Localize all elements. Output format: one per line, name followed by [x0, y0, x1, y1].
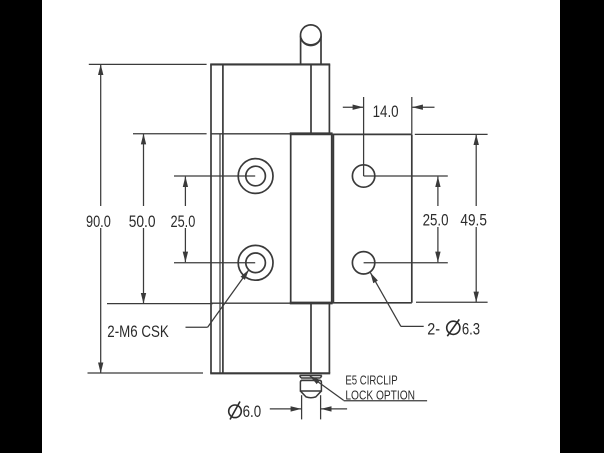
- dim line 49.5 upper segment: [475, 134, 477, 206]
- leader 2-M6 CSK horizontal: [186, 326, 208, 328]
- top knuckle outer edge: [328, 64, 330, 133]
- left pillarbox: [0, 0, 42, 453]
- extension line upper-right hole centerline: [364, 175, 448, 177]
- top pin ball: [301, 25, 322, 46]
- right leaf right edge: [411, 134, 413, 302]
- pin head body: [300, 380, 321, 391]
- top pin tube left side: [300, 36, 302, 64]
- horizontal edge across at barrel bottom: [211, 302, 332, 304]
- lower right hole: [352, 252, 374, 274]
- svg-text:6.0: 6.0: [243, 402, 262, 421]
- dim line 25.0 right lower segment: [437, 227, 439, 262]
- upper left hole inner: [246, 166, 266, 186]
- leader dia 6.3 diagonal: [370, 273, 401, 327]
- svg-text:E5 CIRCLIP: E5 CIRCLIP: [345, 374, 397, 388]
- dia 6.0 right arrow: [321, 408, 347, 410]
- left leaf fold line (middle): [219, 134, 221, 373]
- pin head dome: [301, 391, 322, 398]
- left leaf outer left edge: [210, 64, 212, 373]
- bottom knuckle outer edge: [328, 303, 330, 373]
- dia 6.0 extension right: [320, 395, 322, 419]
- extension line 50.0 bottom: [107, 303, 213, 305]
- top pin inner arc: [301, 38, 320, 45]
- dim line 25.0 left lower segment: [184, 228, 186, 262]
- extension line bottom left (90.0): [88, 372, 204, 374]
- svg-text:LOCK OPTION: LOCK OPTION: [345, 388, 415, 402]
- top pin tube right side: [320, 36, 322, 64]
- svg-text:90.0: 90.0: [86, 212, 111, 231]
- dim line 25.0 right upper segment: [437, 177, 439, 206]
- svg-text:50.0: 50.0: [129, 212, 156, 231]
- circlip groove left side: [300, 376, 301, 379]
- svg-text:6.3: 6.3: [462, 320, 480, 339]
- extension line 14.0 left vertical: [363, 97, 365, 176]
- dim line 14.0 left arrow: [343, 106, 363, 108]
- bottom knuckle inner line: [310, 303, 312, 373]
- dim line 25.0 left upper segment: [184, 177, 186, 206]
- lower left hole inner: [246, 253, 266, 273]
- extension line 14.0 right vertical: [411, 97, 413, 134]
- leader dia 6.3 horizontal: [401, 325, 424, 327]
- leader circlip diagonal: [310, 376, 344, 401]
- right pillarbox: [560, 0, 604, 453]
- circlip groove top line: [300, 375, 322, 377]
- svg-text:14.0: 14.0: [373, 102, 399, 121]
- circlip groove right side: [320, 376, 321, 379]
- extension line lower-right hole centerline: [364, 262, 448, 264]
- extension line 50.0 top: [133, 133, 207, 135]
- extension line 49.5 bottom: [416, 301, 488, 303]
- lower left hole outer: [238, 245, 273, 280]
- left leaf top edge: [210, 63, 330, 65]
- extension line top left (90.0): [89, 63, 207, 65]
- dim line 90.0 upper segment: [100, 64, 102, 206]
- horizontal edge across at barrel top: [211, 133, 332, 135]
- upper left hole outer: [238, 159, 273, 194]
- diameter symbol of 6.0: [229, 402, 242, 420]
- pin head top line: [301, 379, 320, 381]
- leader 2-M6 CSK diagonal: [208, 270, 249, 328]
- left leaf inner left line: [222, 64, 224, 373]
- barrel top edge thick: [290, 132, 333, 135]
- dia 6.0 extension left: [301, 395, 303, 419]
- svg-text:49.5: 49.5: [460, 211, 487, 230]
- dim line 49.5 lower segment: [475, 227, 477, 302]
- diameter symbol of 6.3: [447, 319, 460, 336]
- barrel left edge: [290, 134, 292, 303]
- upper right hole: [352, 165, 374, 187]
- top knuckle inner line: [310, 64, 312, 133]
- extension line lower-left hole centerline: [174, 262, 255, 264]
- svg-text:25.0: 25.0: [171, 212, 196, 231]
- dim line 90.0 lower segment: [100, 228, 102, 373]
- svg-text:2-: 2-: [427, 320, 440, 339]
- right leaf left edge: [332, 134, 334, 302]
- right leaf bottom edge: [332, 302, 412, 304]
- dim line 14.0 right arrow: [412, 106, 434, 108]
- right leaf top edge: [332, 133, 412, 135]
- barrel right edge: [331, 134, 333, 303]
- extension line 49.5 top: [415, 133, 488, 135]
- circlip groove bottom line: [301, 377, 320, 379]
- dim line 50.0 upper segment: [143, 134, 145, 206]
- dia 6.0 left arrow: [270, 408, 301, 410]
- barrel bottom edge thick: [290, 302, 333, 305]
- extension line upper-left hole centerline: [174, 175, 255, 177]
- svg-text:2-M6 CSK: 2-M6 CSK: [107, 322, 169, 341]
- bottom pin: [300, 376, 322, 398]
- dim line 50.0 lower segment: [143, 228, 145, 304]
- left leaf bottom edge: [210, 372, 330, 374]
- circlip note underline: [344, 400, 427, 402]
- dimension and extension lines: [88, 64, 488, 419]
- svg-text:25.0: 25.0: [423, 211, 449, 230]
